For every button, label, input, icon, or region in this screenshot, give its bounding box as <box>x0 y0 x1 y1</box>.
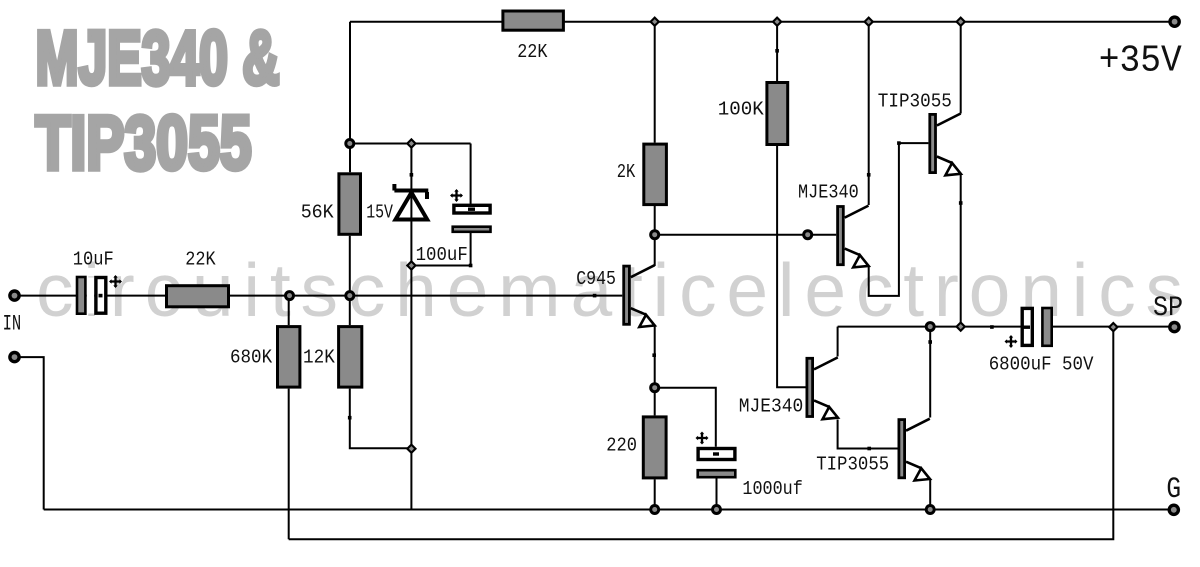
svg-text:100K: 100K <box>718 98 764 120</box>
svg-text:10uF: 10uF <box>73 249 114 271</box>
svg-text:TIP3055: TIP3055 <box>816 454 889 476</box>
svg-text:100uF: 100uF <box>416 244 468 266</box>
svg-text:1000uf: 1000uf <box>742 478 802 500</box>
svg-text:TIP3055: TIP3055 <box>878 91 952 113</box>
svg-text:680K: 680K <box>230 346 272 368</box>
svg-text:15V: 15V <box>366 202 393 224</box>
svg-text:22K: 22K <box>185 249 216 271</box>
svg-text:G: G <box>1166 473 1181 507</box>
svg-text:56K: 56K <box>301 202 334 224</box>
svg-text:6800uF 50V: 6800uF 50V <box>989 353 1094 375</box>
svg-text:MJE340: MJE340 <box>798 181 859 203</box>
svg-text:SP: SP <box>1153 293 1183 324</box>
svg-text:220: 220 <box>606 435 637 457</box>
svg-text:IN: IN <box>3 311 22 336</box>
svg-text:MJE340 &: MJE340 & <box>36 16 280 101</box>
svg-text:+35V: +35V <box>1099 40 1182 83</box>
svg-text:2K: 2K <box>617 161 636 183</box>
svg-text:12K: 12K <box>303 346 335 368</box>
svg-text:C945: C945 <box>576 268 616 290</box>
svg-text:22K: 22K <box>517 41 547 63</box>
svg-text:TIP3055: TIP3055 <box>36 101 252 186</box>
svg-text:MJE340: MJE340 <box>739 395 804 417</box>
